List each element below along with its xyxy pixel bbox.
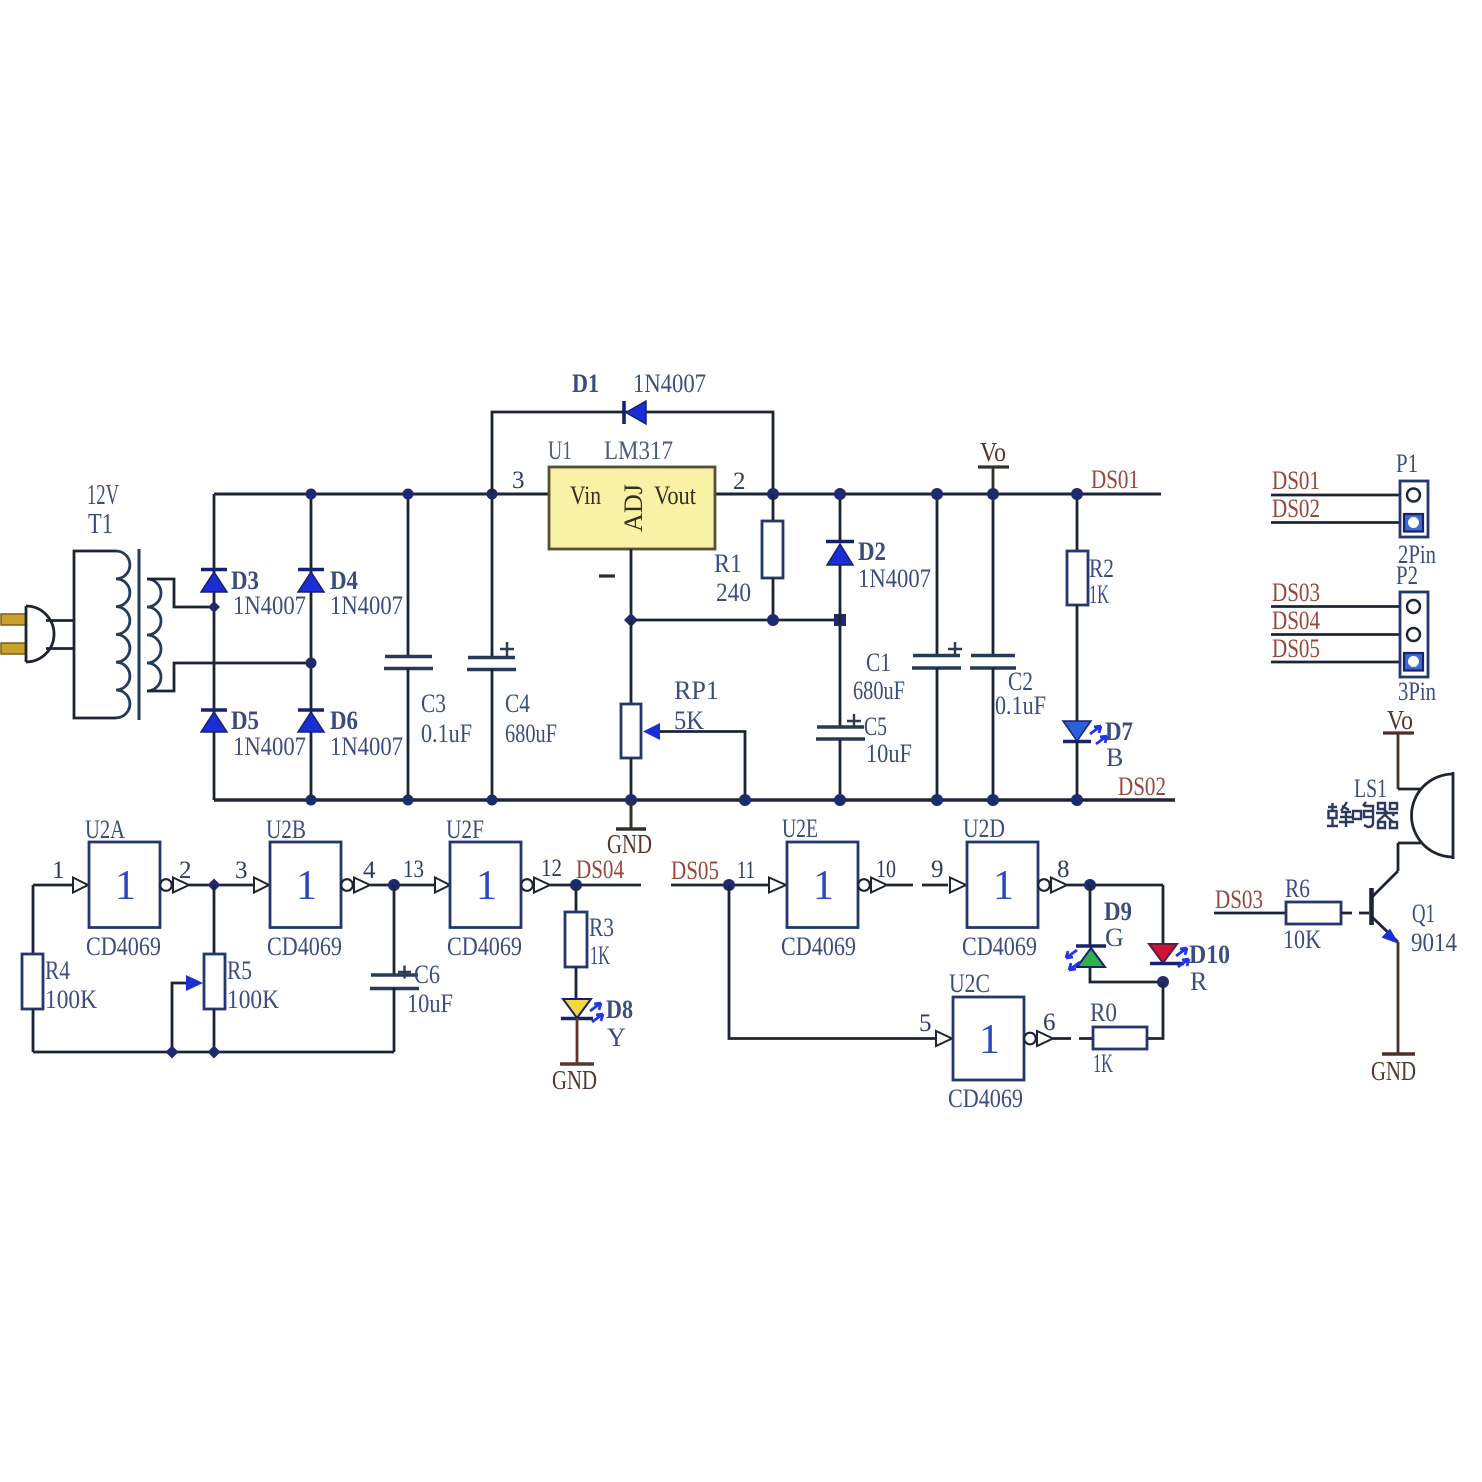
svg-text:2: 2 [733, 468, 746, 495]
svg-text:9014: 9014 [1411, 928, 1457, 957]
LED D7 blue [1063, 717, 1133, 800]
junction D1/R1 on output rail [767, 488, 779, 500]
connector P1 [1396, 449, 1436, 569]
diode D5 [201, 706, 306, 761]
junction C3 bottom [403, 795, 414, 806]
wire U2F out / net DS04 [550, 884, 641, 887]
svg-text:U2A: U2A [85, 815, 125, 844]
svg-text:5: 5 [919, 1010, 932, 1037]
svg-text:680uF: 680uF [505, 719, 557, 748]
resistor R4 [22, 885, 97, 1052]
wire DS03 to P2 pin1 [1271, 605, 1400, 608]
svg-text:Y: Y [607, 1023, 626, 1052]
wire bridge right column [310, 494, 313, 800]
wire bridge left column [213, 494, 216, 800]
wire DS05 to U2E input [671, 884, 769, 887]
capacitor C5 [816, 620, 912, 800]
transformer T1 secondary winding [147, 579, 161, 691]
junction D9 top [1084, 879, 1096, 891]
svg-text:GND: GND [1371, 1056, 1416, 1086]
diode D3 [201, 566, 306, 620]
junction C6 top node [388, 879, 400, 891]
svg-text:12: 12 [541, 855, 562, 882]
wire DS03 to R6 [1214, 912, 1286, 915]
junction secondary bottom to right column [306, 658, 317, 669]
svg-text:DS02: DS02 [1118, 772, 1166, 801]
svg-text:CD4069: CD4069 [267, 932, 342, 961]
svg-text:D10: D10 [1189, 940, 1230, 969]
wire ADJ pin down [630, 549, 633, 620]
transformer T1 primary winding [116, 551, 130, 718]
svg-text:3: 3 [512, 467, 525, 494]
svg-text:1K: 1K [590, 941, 610, 970]
svg-text:100K: 100K [45, 985, 97, 1014]
junction R2 top [1071, 488, 1083, 500]
svg-text:1: 1 [993, 863, 1014, 909]
power flag Vo output [978, 437, 1009, 494]
svg-text:CD4069: CD4069 [86, 932, 161, 961]
svg-text:DS02: DS02 [1272, 494, 1320, 523]
svg-text:R6: R6 [1285, 874, 1310, 903]
wire DS04 to P2 pin2 [1271, 633, 1400, 636]
wire: top input rail [214, 493, 549, 496]
capacitor C3 [384, 494, 472, 800]
op-amp U1 LM317 regulator box [548, 436, 715, 549]
svg-text:R4: R4 [45, 956, 70, 985]
junction wiper bottom [166, 1046, 179, 1059]
svg-text:1: 1 [296, 863, 317, 909]
resistor R2 [1067, 494, 1114, 721]
svg-text:D5: D5 [231, 706, 259, 735]
svg-text:T1: T1 [88, 509, 113, 540]
svg-text:1: 1 [476, 863, 497, 909]
svg-text:DS01: DS01 [1091, 465, 1139, 494]
resistor R6 [1283, 874, 1341, 954]
plug body [26, 606, 54, 662]
wire U2A input [33, 884, 73, 887]
svg-text:240: 240 [716, 578, 751, 607]
capacitor C1 [853, 494, 962, 800]
wire Q1 emitter to ground [1397, 942, 1400, 1054]
svg-text:3: 3 [235, 857, 248, 884]
connector P2 [1396, 561, 1436, 706]
svg-text:1N4007: 1N4007 [330, 732, 403, 761]
svg-text:P2: P2 [1396, 561, 1418, 590]
svg-text:3Pin: 3Pin [1398, 677, 1436, 706]
junction bridge right top [306, 489, 317, 500]
diode D6 [298, 706, 403, 761]
svg-text:1N4007: 1N4007 [633, 369, 706, 398]
svg-text:D6: D6 [330, 706, 358, 735]
svg-text:U2C: U2C [949, 969, 990, 998]
power flag Vo buzzer [1383, 705, 1414, 789]
svg-text:12V: 12V [87, 480, 119, 511]
junction D10 bottom [1157, 976, 1169, 988]
svg-text:1N4007: 1N4007 [233, 591, 306, 620]
svg-text:R1: R1 [714, 549, 742, 578]
svg-text:C5: C5 [864, 712, 887, 741]
svg-text:11: 11 [737, 857, 755, 884]
resistor R0 [1090, 998, 1147, 1078]
svg-text:4: 4 [363, 857, 376, 884]
junction C3 top [403, 489, 414, 500]
svg-text:680uF: 680uF [853, 676, 905, 705]
svg-text:Vout: Vout [654, 481, 697, 510]
junction R5 bottom [208, 1046, 221, 1059]
svg-text:U2F: U2F [446, 815, 484, 844]
junction ADJ tee [624, 613, 638, 627]
transformer T1 primary loop [74, 551, 116, 718]
junction pad D2 bottom [834, 614, 846, 626]
svg-text:1K: 1K [1093, 1049, 1113, 1078]
wire D1 bypass loop [492, 412, 773, 494]
inverter U2E [769, 814, 887, 961]
diode D4 [298, 566, 403, 620]
svg-text:CD4069: CD4069 [962, 932, 1037, 961]
svg-text:U1: U1 [548, 436, 572, 465]
svg-text:10K: 10K [1283, 925, 1321, 954]
potentiometer RP1 [621, 620, 719, 800]
junction R3 top [570, 879, 582, 891]
ground symbol at Q1 [1371, 1054, 1416, 1086]
svg-text:LS1: LS1 [1354, 774, 1387, 803]
LED D10 red [1149, 885, 1230, 996]
svg-text:G: G [1105, 923, 1124, 952]
inverter U2D [950, 814, 1067, 961]
svg-text:GND: GND [552, 1065, 597, 1095]
capacitor C2 [970, 494, 1046, 800]
junction C2 bottom [987, 794, 999, 806]
wire U2C out to R0 [1053, 1037, 1093, 1040]
wire D10 bottom to R0 [1147, 982, 1163, 1039]
resistor R3 [565, 885, 614, 999]
svg-text:D9: D9 [1104, 897, 1132, 926]
svg-text:R5: R5 [227, 956, 252, 985]
svg-text:C1: C1 [866, 648, 891, 677]
svg-text:U2B: U2B [266, 815, 306, 844]
svg-text:DS05: DS05 [1272, 634, 1320, 663]
svg-text:2: 2 [179, 857, 192, 884]
wire secondary bottom lead to bridge right node [147, 663, 311, 691]
svg-text:0.1uF: 0.1uF [421, 719, 472, 748]
svg-text:U2E: U2E [782, 814, 818, 843]
svg-text:8: 8 [1057, 856, 1070, 883]
wire DS01 to P1 pin1 [1271, 494, 1400, 497]
svg-text:1: 1 [813, 863, 834, 909]
svg-text:CD4069: CD4069 [447, 932, 522, 961]
junction C1 top [931, 488, 943, 500]
svg-text:13: 13 [403, 856, 424, 883]
wire DS05 to P2 pin3 [1271, 661, 1400, 664]
wire U2A out to U2B in [189, 884, 254, 887]
svg-text:1K: 1K [1089, 580, 1109, 609]
capacitor C4 [467, 494, 557, 800]
svg-text:10uF: 10uF [866, 739, 912, 768]
junction bridge right bottom [306, 795, 317, 806]
wire D9 bottom link [1090, 967, 1163, 982]
svg-text:1N4007: 1N4007 [330, 591, 403, 620]
inverter U2A [73, 815, 189, 961]
svg-text:CD4069: CD4069 [781, 932, 856, 961]
junction U2C branch [723, 879, 735, 891]
svg-text:DS03: DS03 [1215, 885, 1263, 914]
ADJ minus mark [599, 574, 615, 577]
svg-text:Vo: Vo [1387, 705, 1413, 735]
ground symbol at ADJ [607, 800, 652, 859]
transistor Q1 [1372, 843, 1458, 957]
wire U2D out node [1067, 884, 1163, 887]
wire plug to primary top [46, 619, 74, 622]
wire RP1 wiper return [660, 732, 745, 801]
LED D9 green [1066, 885, 1132, 970]
junction R5 top node [208, 879, 221, 892]
potentiometer R5 [186, 885, 279, 1052]
diode D2 [826, 494, 931, 620]
svg-text:B: B [1106, 743, 1123, 772]
junction C4 top [487, 489, 498, 500]
svg-text:D7: D7 [1105, 717, 1133, 746]
wire U2E out to U2D in [887, 884, 950, 887]
svg-text:DS05: DS05 [671, 856, 719, 885]
svg-text:1N4007: 1N4007 [233, 732, 306, 761]
capacitor C6 [370, 885, 453, 1052]
svg-text:D1: D1 [572, 369, 599, 398]
svg-text:100K: 100K [227, 985, 279, 1014]
svg-text:P1: P1 [1396, 449, 1418, 478]
junction wiper return rail [739, 794, 751, 806]
svg-text:DS01: DS01 [1272, 466, 1320, 495]
svg-text:9: 9 [931, 856, 944, 883]
junction C2 top [987, 488, 999, 500]
junction D2 top [834, 488, 846, 500]
inverter U2B [254, 815, 370, 961]
wire U2C input branch [729, 885, 936, 1039]
ground symbol at D8 [552, 1018, 597, 1095]
svg-text:Vin: Vin [570, 481, 601, 510]
svg-text:1N4007: 1N4007 [858, 564, 931, 593]
wire secondary top lead to bridge left node [147, 579, 214, 607]
svg-text:10: 10 [876, 856, 896, 883]
svg-text:DS04: DS04 [576, 855, 624, 884]
svg-text:D8: D8 [606, 995, 633, 1024]
wire plug to primary bottom [46, 647, 74, 650]
wire: bottom ground rail [214, 798, 1175, 802]
junction RP1 bottom rail [625, 794, 637, 806]
buzzer Chinese label (drawn glyphs) [1327, 802, 1398, 828]
plug AC prong bottom [1, 643, 26, 654]
svg-text:R: R [1190, 967, 1208, 996]
junction C1 bottom [931, 794, 943, 806]
svg-text:C4: C4 [505, 689, 530, 718]
wire oscillator bottom return [33, 1051, 394, 1054]
wire DS02 to P1 pin2 [1271, 521, 1400, 524]
svg-text:0.1uF: 0.1uF [995, 691, 1046, 720]
diode D1 [572, 369, 706, 424]
junction C5 bottom [834, 794, 846, 806]
svg-text:RP1: RP1 [674, 676, 719, 705]
svg-text:R0: R0 [1090, 998, 1117, 1027]
transformer T1 core [138, 549, 141, 720]
svg-text:ADJ: ADJ [619, 484, 648, 532]
svg-text:Q1: Q1 [1412, 899, 1435, 928]
svg-text:DS03: DS03 [1272, 578, 1320, 607]
svg-text:DS04: DS04 [1272, 606, 1320, 635]
svg-text:1: 1 [115, 863, 136, 909]
svg-text:U2D: U2D [963, 814, 1005, 843]
wire R5 wiper return [172, 983, 186, 1052]
inverter U2C [936, 969, 1053, 1113]
svg-text:C6: C6 [414, 960, 440, 989]
junction D7 bottom [1071, 794, 1083, 806]
LED D8 yellow [561, 995, 633, 1052]
junction R1 bottom [767, 614, 779, 626]
wire U2B out to U2F in [370, 884, 435, 887]
wire ADJ horizontal line [631, 619, 840, 622]
resistor R1 [714, 494, 783, 620]
svg-text:10uF: 10uF [407, 989, 453, 1018]
svg-text:LM317: LM317 [604, 436, 673, 465]
wire R6 to Q1 base [1341, 912, 1369, 915]
inverter U2F [435, 815, 550, 961]
svg-text:C3: C3 [421, 689, 446, 718]
svg-text:1: 1 [52, 857, 65, 884]
svg-text:CD4069: CD4069 [948, 1084, 1023, 1113]
svg-text:R3: R3 [589, 913, 614, 942]
svg-text:1: 1 [979, 1017, 1000, 1063]
svg-text:6: 6 [1043, 1009, 1056, 1036]
buzzer LS1 [1354, 772, 1453, 859]
svg-text:D2: D2 [858, 537, 886, 566]
plug AC prong top [1, 614, 26, 625]
junction secondary top to left column [208, 601, 220, 613]
junction C4 bottom [487, 795, 498, 806]
svg-text:Vo: Vo [980, 437, 1006, 467]
wire: top output rail to DS01 [715, 493, 1161, 496]
svg-text:R2: R2 [1089, 554, 1114, 583]
